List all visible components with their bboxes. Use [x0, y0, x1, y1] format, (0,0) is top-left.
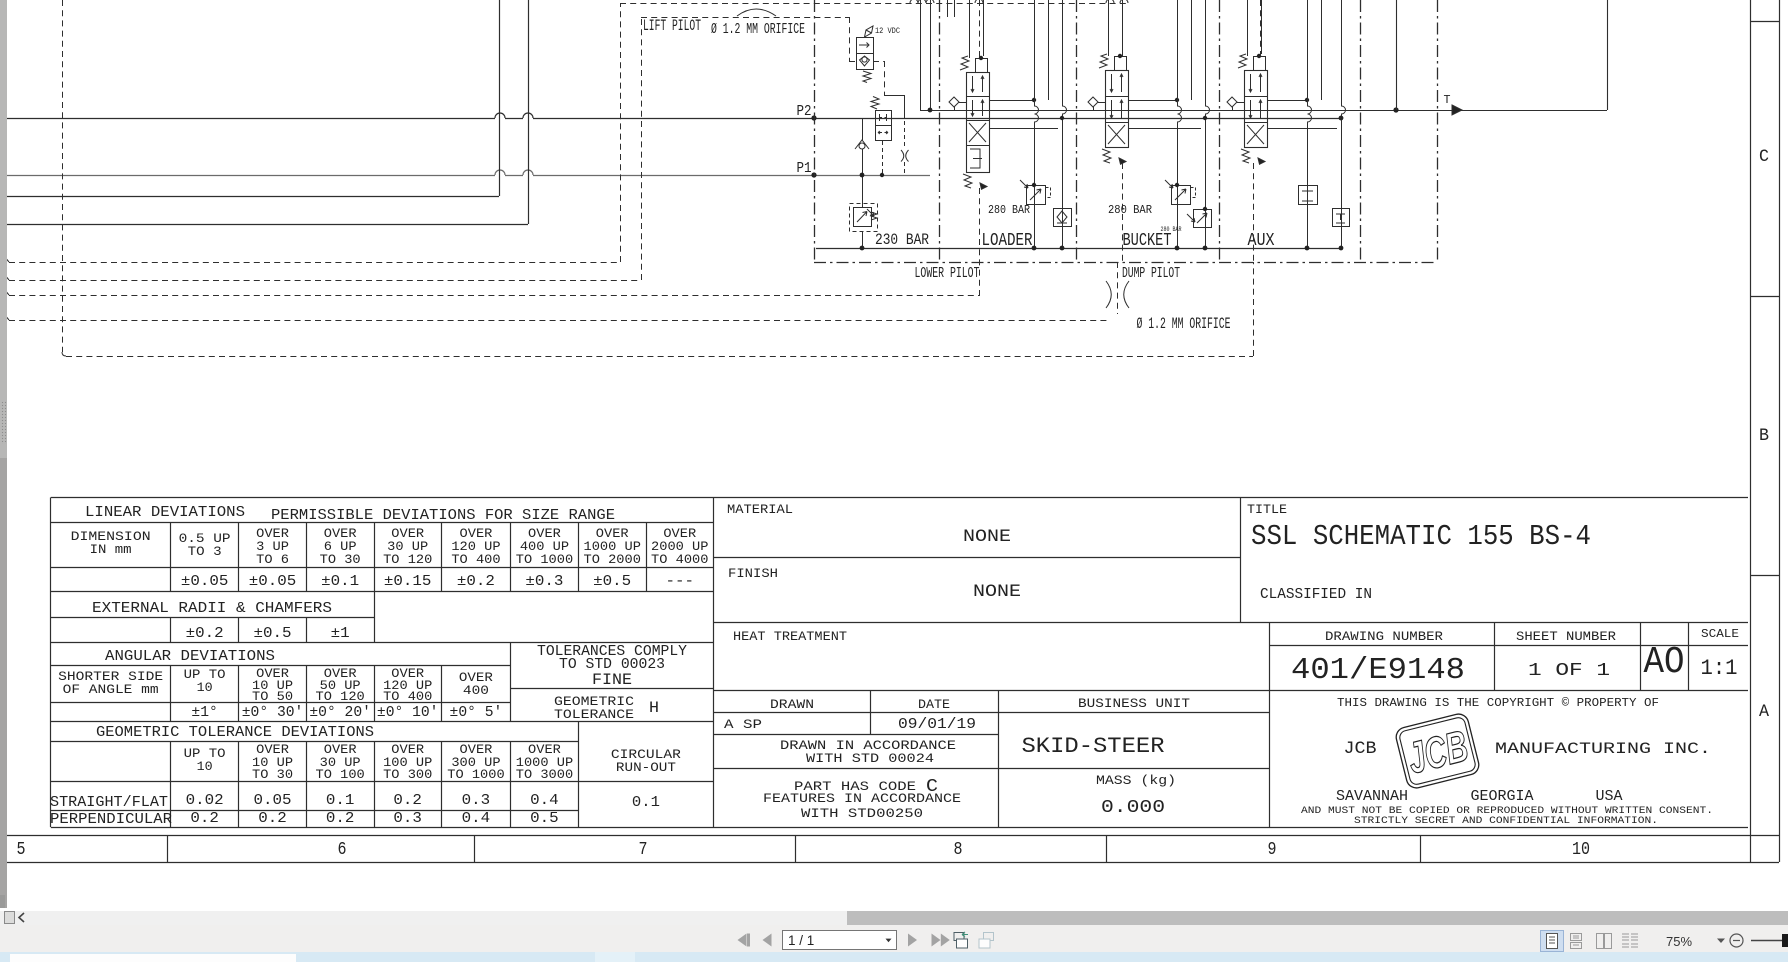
- pilot arrow bottom of V2 BUCKET: [1119, 158, 1126, 164]
- node pilot cap V1 LOADER: [979, 56, 983, 60]
- ports in PRV1 bottom cell: [878, 131, 888, 134]
- wire riser A of V2 BUCKET: [1108, 0, 1110, 56]
- svg-text:IN mm: IN mm: [90, 542, 132, 557]
- view two-page continuous: [1622, 934, 1638, 947]
- svg-text:TO 400: TO 400: [451, 552, 500, 567]
- svg-text:STRICTLY SECRET AND CONFIDENTI: STRICTLY SECRET AND CONFIDENTIAL INFORMA…: [1354, 816, 1658, 827]
- table line r5: [51, 642, 511, 644]
- spring bottom of V3 AUX: [1241, 149, 1250, 163]
- ports in PRV1 top cell: [880, 114, 887, 121]
- node service 1307 return junction: [1305, 246, 1310, 251]
- svg-text:10: 10: [197, 759, 213, 774]
- node P2 rail end at x1341: [1339, 116, 1344, 121]
- wire vertical x1396 from top: [1396, 0, 1398, 110]
- spring bottom of V1 LOADER: [963, 174, 972, 188]
- svg-text:Ø 1.2 MM ORIFICE: Ø 1.2 MM ORIFICE: [1137, 315, 1231, 333]
- manifold section boundary x1076: [1076, 0, 1078, 262]
- node RV2 top: [1175, 183, 1179, 187]
- pilot cap top of V3 AUX: [1254, 57, 1266, 71]
- svg-text:±0.2: ±0.2: [186, 626, 224, 642]
- V1 LOADER float position: [970, 149, 982, 168]
- dashed pilot RV2: [1191, 188, 1196, 198]
- crossover arc on y3 at x979: [975, 0, 983, 3]
- wire P1 supply from left: [7, 175, 495, 177]
- table col line circular left: [578, 722, 580, 828]
- spring top of V2 BUCKET: [1099, 54, 1108, 68]
- wire L-corner to x904: [884, 95, 904, 97]
- wire V1 LOADER port B to x1062: [989, 128, 1058, 130]
- wire service line x1341 hop over T rail: [1342, 0, 1346, 248]
- V2 BUCKET flow path a: [1110, 100, 1113, 118]
- number row divider x1420: [1420, 835, 1422, 862]
- table line r1: [51, 522, 714, 524]
- wire return rail manifold bottom: [816, 248, 1341, 250]
- node V2 BUCKET portA junction: [1175, 98, 1179, 102]
- number row divider x795: [795, 835, 797, 862]
- svg-text:0.5: 0.5: [530, 811, 559, 827]
- dashed pilot RV1: [1046, 188, 1051, 198]
- crossover arc on y3 at x930: [926, 0, 934, 3]
- svg-text:FINISH: FINISH: [728, 566, 778, 581]
- titleblock top border: [714, 497, 1749, 499]
- V3 AUX flow path a: [1249, 74, 1252, 92]
- V3 AUX crossed position: [1247, 125, 1264, 144]
- table col line x306 radii: [306, 618, 308, 643]
- svg-text:MANUFACTURING INC.: MANUFACTURING INC.: [1495, 740, 1711, 758]
- wire P1 into inlet section: [533, 175, 930, 177]
- sidebar collapse chevron: [19, 913, 24, 922]
- svg-text:TO 50: TO 50: [252, 689, 293, 704]
- svg-text:B: B: [1759, 427, 1769, 446]
- number row divider x167: [167, 835, 169, 862]
- svg-text:0.3: 0.3: [393, 811, 422, 827]
- table col line x646 linear: [646, 523, 648, 592]
- wire riser A of V3 AUX: [1247, 0, 1249, 56]
- orifice symbol right arc dump pilot: [1124, 281, 1129, 308]
- svg-text:NONE: NONE: [973, 583, 1021, 602]
- svg-text:GEOMETRIC TOLERANCE DEVIATIONS: GEOMETRIC TOLERANCE DEVIATIONS: [96, 725, 374, 741]
- sidebar toggle button: [5, 912, 15, 924]
- wire case-drain lower-left: [7, 196, 499, 198]
- V2 BUCKET flow path b: [1120, 100, 1123, 118]
- wire check stem to rail V3 AUX: [1232, 107, 1234, 110]
- wire riser B of V3 AUX: [1261, 0, 1263, 54]
- pilot line below V1 to lower-pilot: [979, 188, 981, 295]
- crossover arc on y3 at x922: [918, 0, 926, 3]
- wire riser x1191 of V2 BUCKET: [1191, 0, 1193, 100]
- JCB logo: [1394, 712, 1481, 790]
- table line r9: [51, 741, 579, 743]
- pilot line SV1 right: [873, 61, 884, 63]
- number row divider x474: [474, 835, 476, 862]
- wire P2 crossover arc at x500: [495, 113, 505, 118]
- V1 LOADER flow path b: [981, 100, 984, 116]
- V3 AUX flow path a: [1249, 100, 1252, 118]
- vertical scale left: [1688, 623, 1690, 691]
- pilot line lower-pilot y295 end hook: [4, 289, 9, 295]
- wire check to V3 AUX inlet: [1237, 102, 1244, 104]
- node V1 LOADER portA junction: [1032, 98, 1036, 102]
- svg-text:LIFT PILOT: LIFT PILOT: [643, 17, 701, 35]
- wire V3 AUX port B to x1341: [1267, 128, 1337, 130]
- pilot line dump-pilot y320 end hook: [4, 314, 9, 320]
- svg-text:WITH STD00250: WITH STD00250: [801, 806, 923, 821]
- zone divider D/C: [1751, 21, 1780, 23]
- check valve of V1 LOADER: [949, 97, 959, 107]
- pilot line into SV1 left: [849, 61, 856, 63]
- table col line x578 linear: [578, 523, 580, 592]
- directional control valve V1 LOADER: [967, 73, 990, 173]
- zoom slider: [1751, 940, 1786, 942]
- svg-text:WITH STD 00024: WITH STD 00024: [806, 751, 934, 766]
- crossover arc on y3 at x914: [910, 0, 918, 3]
- svg-text:0.2: 0.2: [393, 793, 422, 809]
- curved jumper above lift pilot box: [737, 9, 776, 16]
- table col line x170 linear: [170, 523, 172, 592]
- node CV0 line crosses P1: [860, 173, 865, 178]
- wire P2 segment: [505, 118, 523, 120]
- wire x904 to P2 rail: [904, 95, 906, 118]
- wire riser x1048 of V1 LOADER: [1048, 0, 1050, 100]
- wire P2 to CV0: [862, 118, 864, 140]
- svg-text:TO 120: TO 120: [316, 689, 365, 704]
- svg-text:TO 300: TO 300: [383, 767, 432, 782]
- pilot line y280 end hook: [4, 274, 9, 280]
- pilot line above V1 LOADER: [979, 0, 981, 58]
- svg-text:T: T: [1444, 94, 1451, 107]
- table col line x170 radii: [170, 618, 172, 643]
- svg-text:±1: ±1: [331, 626, 350, 642]
- pilot line through dump orifice: [1117, 262, 1119, 314]
- wire P1 segment: [505, 175, 523, 177]
- vertical date/business: [998, 691, 1000, 828]
- svg-text:±0° 10': ±0° 10': [377, 705, 439, 721]
- first page button: [738, 934, 747, 947]
- svg-text:SAVANNAH: SAVANNAH: [1336, 789, 1408, 805]
- svg-text:9: 9: [1268, 838, 1277, 860]
- svg-text:CLASSIFIED IN: CLASSIFIED IN: [1260, 587, 1372, 603]
- svg-text:TO 4000: TO 4000: [651, 552, 709, 567]
- svg-text:280 BAR: 280 BAR: [1161, 226, 1182, 233]
- wire riser x1321 of V3 AUX: [1321, 0, 1323, 100]
- manifold enclosure bottom y262: [814, 262, 1437, 264]
- svg-text:0.1: 0.1: [632, 795, 660, 811]
- pilot line above V3 AUX: [1260, 0, 1262, 56]
- node RV3 top: [1203, 207, 1207, 211]
- svg-text:280 BAR: 280 BAR: [988, 203, 1030, 217]
- number row top line: [0, 835, 1779, 837]
- svg-text:TITLE: TITLE: [1247, 502, 1287, 517]
- table col line x306 angular: [306, 666, 308, 722]
- relief valve RV2 280 BAR bucket: [1172, 186, 1191, 205]
- pilot line aux y356: [66, 356, 1253, 358]
- pilot line lower-pilot y295: [9, 295, 980, 297]
- pilot line drop x849 to SV1: [849, 17, 851, 61]
- svg-text:400: 400: [463, 683, 489, 698]
- node P1 junction at manifold edge: [811, 172, 816, 177]
- svg-text:10: 10: [197, 680, 213, 695]
- svg-text:MASS (kg): MASS (kg): [1096, 773, 1176, 788]
- next page button: [908, 934, 917, 947]
- node T rail junction x1396: [1393, 107, 1398, 112]
- material/finish divider: [714, 557, 1241, 559]
- table line r2: [51, 567, 714, 569]
- svg-text:TO 400: TO 400: [383, 689, 432, 704]
- spring top of V3 AUX: [1238, 54, 1247, 68]
- svg-text:FINE: FINE: [592, 671, 632, 689]
- wire check to V2 BUCKET inlet: [1098, 102, 1105, 104]
- svg-text:0.000: 0.000: [1101, 796, 1165, 818]
- table col line x306 linear: [306, 523, 308, 592]
- svg-text:±0.2: ±0.2: [457, 574, 495, 590]
- bottom toolbar: [0, 925, 1788, 952]
- wire riser x920: [920, 0, 922, 110]
- tolerances box top: [511, 642, 714, 644]
- wire check stem to rail V2 BUCKET: [1093, 107, 1095, 110]
- V1 LOADER flow path a: [971, 100, 974, 116]
- pilot arrow bottom of V3 AUX: [1258, 158, 1265, 164]
- svg-text:SSL SCHEMATIC 155 BS-4: SSL SCHEMATIC 155 BS-4: [1251, 520, 1591, 553]
- svg-text:JCB: JCB: [1403, 721, 1473, 783]
- dashed box around RV0: [850, 204, 878, 232]
- wire riser stub x947: [947, 0, 949, 17]
- orifice OR1 right arc: [906, 150, 909, 162]
- svg-text:±0.05: ±0.05: [249, 574, 297, 590]
- svg-text:0.3: 0.3: [462, 793, 491, 809]
- pilot sense line PRV1 to P1: [882, 141, 884, 175]
- table line r8: [51, 721, 714, 723]
- svg-text:±0.1: ±0.1: [321, 574, 359, 590]
- border column right line: [1779, 0, 1781, 862]
- wire service line x1307 hop over rails: [1308, 0, 1312, 248]
- svg-text:0.05: 0.05: [254, 793, 292, 809]
- line under drawn header: [714, 712, 1270, 714]
- orifice OR1 left arc: [901, 150, 904, 162]
- svg-text:C: C: [1759, 148, 1769, 167]
- replace-foreground icon disabled: [979, 933, 994, 949]
- svg-text:±0° 30': ±0° 30': [242, 705, 304, 721]
- plug P1b aux port B: [1333, 209, 1350, 227]
- check valve of V3 AUX: [1227, 97, 1237, 107]
- svg-text:10: 10: [1572, 838, 1590, 860]
- page number box: [783, 931, 897, 950]
- table col line x238 angular: [238, 666, 240, 722]
- pilot line y262 end hook: [4, 256, 9, 262]
- svg-text:1 OF 1: 1 OF 1: [1528, 659, 1610, 681]
- V3 AUX flow path b: [1259, 74, 1262, 92]
- view continuous: [1571, 934, 1582, 949]
- table col line x510 linear: [510, 523, 512, 592]
- title box left edge: [1240, 498, 1242, 623]
- crossover arc on y3 at x1124: [1120, 0, 1128, 3]
- V3 AUX flow path b: [1259, 100, 1262, 118]
- geometric tolerance box top: [511, 688, 714, 690]
- left sidebar splitter: [0, 0, 7, 908]
- node PRV1 sense on P1: [880, 173, 884, 177]
- node service 1034 return junction: [1032, 246, 1037, 251]
- crossover arc on y3 at x1110: [1106, 0, 1114, 3]
- table col line x170 angular: [170, 666, 172, 722]
- svg-text:±0.5: ±0.5: [593, 574, 631, 590]
- table col line x170 geometric: [170, 742, 172, 828]
- arrow in SV1 top position: [859, 43, 869, 48]
- pilot line y262: [9, 262, 620, 264]
- svg-text:0.2: 0.2: [326, 811, 355, 827]
- number row divider x1106: [1106, 835, 1108, 862]
- svg-text:280 BAR: 280 BAR: [1108, 203, 1152, 217]
- table col line x306 geometric: [306, 742, 308, 828]
- check valve of V2 BUCKET: [1088, 97, 1098, 107]
- svg-text:TO 1000: TO 1000: [516, 552, 574, 567]
- wire service line x1177 hop over rails: [1178, 0, 1182, 248]
- svg-text:PERMISSIBLE DEVIATIONS FOR SIZ: PERMISSIBLE DEVIATIONS FOR SIZE RANGE: [271, 508, 615, 524]
- wire CV0 down to relief RV0: [862, 149, 864, 207]
- pilot line y280: [9, 280, 641, 282]
- table col line angular right: [510, 643, 512, 722]
- svg-text:P2: P2: [797, 104, 812, 120]
- manifold section boundary x939: [939, 0, 941, 262]
- wire riser B of V2 BUCKET: [1122, 0, 1124, 54]
- svg-text:TO 6: TO 6: [256, 552, 289, 567]
- node service 1341 return junction: [1339, 246, 1344, 251]
- V2 BUCKET crossed position: [1108, 125, 1125, 144]
- svg-text:±0.05: ±0.05: [181, 574, 229, 590]
- relief valve RV1 280 BAR loader: [1027, 186, 1046, 205]
- node V3 AUX portA junction: [1305, 98, 1309, 102]
- vertical sheet-number left: [1494, 623, 1496, 691]
- svg-text:230 BAR: 230 BAR: [875, 231, 929, 249]
- svg-text:0.2: 0.2: [258, 811, 287, 827]
- horizontal scrollbar: [0, 911, 1788, 925]
- table line r3: [51, 591, 714, 593]
- titleblock bottom border: [714, 827, 1749, 829]
- node pilot cap V2 BUCKET: [1118, 54, 1122, 58]
- wire P2 supply from left: [7, 118, 495, 120]
- svg-text:MATERIAL: MATERIAL: [727, 502, 793, 517]
- arrow T flow direction: [1452, 105, 1462, 115]
- svg-text:PERPENDICULAR: PERPENDICULAR: [50, 812, 172, 828]
- manifold section boundary x1360: [1360, 0, 1362, 262]
- svg-text:0.4: 0.4: [530, 793, 559, 809]
- last page button: [932, 934, 941, 947]
- svg-text:THIS DRAWING IS THE COPYRIGHT: THIS DRAWING IS THE COPYRIGHT © PROPERTY…: [1337, 697, 1659, 710]
- zoom out button: [1730, 934, 1743, 947]
- wire P2 crossover arc at x528: [523, 113, 533, 118]
- table right border: [713, 498, 715, 828]
- table col line x374 angular: [374, 666, 376, 722]
- svg-text:FEATURES IN ACCORDANCE: FEATURES IN ACCORDANCE: [763, 791, 961, 806]
- wire check to V1 LOADER inlet: [959, 102, 966, 104]
- node service 1062 return junction: [1060, 246, 1065, 251]
- svg-text:AUX: AUX: [1248, 229, 1275, 251]
- svg-text:LINEAR DEVIATIONS: LINEAR DEVIATIONS: [85, 505, 245, 521]
- wire T rail riser to top edge: [1607, 0, 1609, 110]
- svg-text:LOWER PILOT: LOWER PILOT: [915, 266, 980, 282]
- OR1 to P1: [904, 162, 906, 175]
- svg-text:09/01/19: 09/01/19: [898, 717, 976, 733]
- svg-text:A: A: [1759, 703, 1770, 722]
- svg-text:GEORGIA: GEORGIA: [1471, 789, 1534, 805]
- svg-text:DRAWN: DRAWN: [770, 697, 814, 712]
- lift pilot box top y17: [641, 17, 849, 19]
- svg-text:LOADER: LOADER: [982, 229, 1033, 251]
- wire riser stub x954: [954, 0, 956, 17]
- svg-text:JCB: JCB: [1344, 740, 1377, 759]
- svg-text:±0.5: ±0.5: [254, 626, 292, 642]
- pilot line aux riser x1253: [1253, 262, 1255, 356]
- pilot line dump-pilot y320: [9, 320, 1108, 322]
- table left border: [50, 498, 52, 828]
- zone divider B/A: [1751, 575, 1780, 577]
- line under accordance row: [714, 768, 1270, 770]
- svg-text:TO 3: TO 3: [188, 544, 222, 559]
- node riser930 on T rail: [928, 108, 933, 113]
- wire lowest solid left: [7, 224, 528, 226]
- svg-text:±0° 5': ±0° 5': [450, 705, 503, 721]
- vertical x1269: [1269, 623, 1271, 828]
- svg-text:8: 8: [954, 838, 963, 860]
- svg-text:TO 120: TO 120: [383, 552, 432, 567]
- svg-text:±0° 20': ±0° 20': [309, 705, 371, 721]
- svg-text:401/E9148: 401/E9148: [1291, 654, 1465, 688]
- check symbol in SV1 bottom position: [860, 56, 870, 66]
- V2 BUCKET flow path a: [1110, 74, 1113, 92]
- node service 1205 return junction: [1203, 246, 1208, 251]
- table line r4: [51, 617, 374, 619]
- wire service line x1062 hop over T rail: [1063, 0, 1067, 248]
- number row divider x4: [4, 835, 6, 862]
- node RV0-return junction: [860, 246, 865, 251]
- svg-text:DATE: DATE: [918, 697, 950, 712]
- table col line x441 linear: [441, 523, 443, 592]
- node service 1177 return junction: [1175, 246, 1180, 251]
- pilot line vertical x62: [62, 0, 64, 352]
- svg-text:SKID-STEER: SKID-STEER: [1022, 734, 1165, 759]
- check valve CV0 vee: [855, 140, 869, 149]
- node service 1341 joins P rail: [1339, 116, 1343, 120]
- svg-text:1:1: 1:1: [1701, 656, 1738, 681]
- svg-text:DRAWING NUMBER: DRAWING NUMBER: [1325, 629, 1443, 644]
- wire P2 rail into manifold: [533, 118, 1341, 120]
- svg-text:USA: USA: [1596, 789, 1623, 805]
- svg-text:TO 30: TO 30: [252, 767, 293, 782]
- directional control valve V2 BUCKET: [1106, 71, 1129, 148]
- svg-text:TOLERANCE: TOLERANCE: [554, 707, 634, 722]
- svg-text:H: H: [649, 699, 659, 717]
- spring top of PRV1: [871, 97, 879, 110]
- lighter segment in status strip: [595, 952, 635, 962]
- border column left line: [1750, 0, 1752, 862]
- table col line x374 linear: [374, 523, 376, 592]
- wire T tank return rail: [920, 110, 1607, 112]
- anticavitation check ACV1 loader: [1054, 209, 1072, 227]
- svg-text:AO: AO: [1644, 642, 1685, 684]
- svg-text:ANGULAR DEVIATIONS: ANGULAR DEVIATIONS: [105, 649, 275, 665]
- titleblock line y690: [714, 690, 1749, 692]
- view two-page: [1597, 934, 1612, 949]
- svg-text:P1: P1: [797, 161, 812, 177]
- svg-text:12 VDC: 12 VDC: [875, 26, 900, 36]
- svg-text:0.2: 0.2: [190, 811, 219, 827]
- svg-text:6: 6: [338, 838, 347, 860]
- header divider y645: [1270, 645, 1749, 647]
- pilot line below V2 to dump orifice: [1122, 163, 1124, 262]
- vertical A0 left: [1640, 623, 1642, 691]
- V1 LOADER crossed position: [969, 123, 986, 142]
- replace-background icon: [954, 932, 968, 948]
- node service 1062 joins P rail: [1060, 116, 1064, 120]
- V1 LOADER flow path a: [971, 76, 974, 92]
